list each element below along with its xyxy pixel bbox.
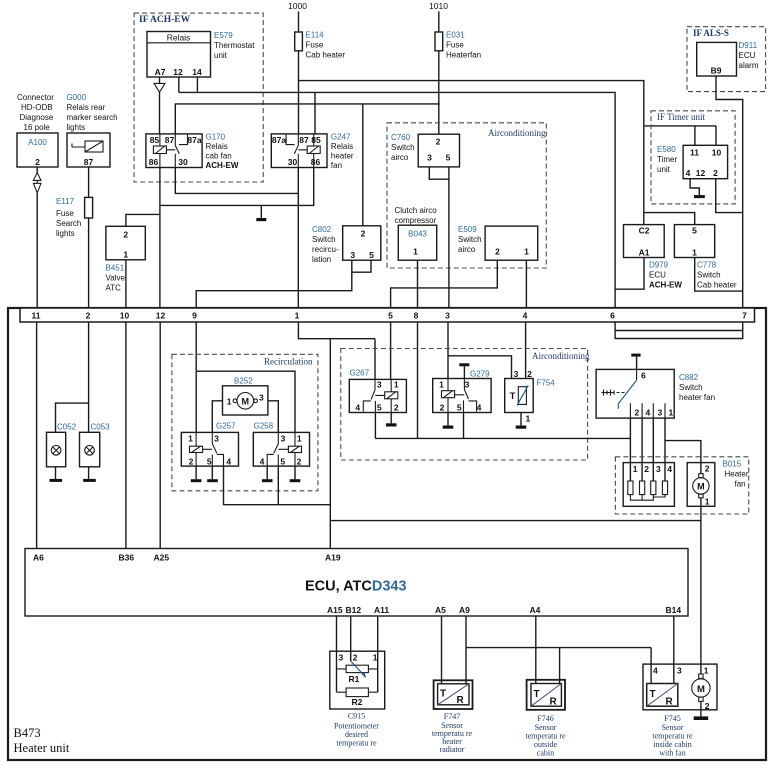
svg-text:G000: G000 (67, 93, 87, 102)
svg-text:Airconditioning: Airconditioning (488, 128, 546, 138)
outer box B473 Heater unit (8, 308, 766, 760)
wire bus 4 below bar to F754 pin 2 (525, 322, 527, 379)
svg-text:A6: A6 (33, 553, 44, 563)
svg-text:30: 30 (178, 157, 188, 167)
wire B9 to bus 7 (716, 76, 743, 308)
svg-text:9: 9 (192, 311, 197, 321)
wire C760 to bus 3 (448, 179, 450, 308)
E580 pin 4 to ground (690, 179, 699, 195)
svg-text:heater fan: heater fan (679, 393, 715, 402)
svg-text:2: 2 (394, 403, 399, 413)
svg-text:2: 2 (353, 653, 358, 663)
svg-text:A19: A19 (325, 553, 341, 563)
line A to C778 pin 5 (644, 213, 695, 225)
svg-text:1: 1 (227, 397, 232, 407)
C882 pins 2 4 3 1 (630, 403, 665, 418)
svg-text:airco: airco (458, 245, 476, 254)
svg-text:B36: B36 (119, 553, 135, 563)
svg-text:87: 87 (84, 157, 94, 167)
svg-text:lation: lation (312, 255, 331, 264)
svg-text:ATC: ATC (106, 284, 122, 293)
G267 pin 5 down (374, 413, 376, 439)
svg-text:Relais: Relais (206, 142, 228, 151)
svg-text:D911: D911 (739, 41, 758, 50)
svg-text:16 pole: 16 pole (24, 123, 51, 132)
svg-text:2: 2 (495, 247, 500, 257)
wire A5 to F747 (441, 616, 443, 684)
C882 pin wires down to B015 (630, 418, 665, 481)
G257 coil (195, 432, 197, 446)
svg-text:5: 5 (207, 457, 212, 467)
G257 contact (203, 432, 224, 466)
E509 pin 1 to bus 4 (525, 260, 527, 308)
svg-text:B12: B12 (346, 605, 362, 615)
triangle arrow (154, 83, 165, 92)
wire A11 to C915 pin 1 (377, 616, 379, 692)
G258 coil (294, 432, 296, 446)
IF ALS-S dashed box (687, 27, 766, 92)
switch heater fan C882 power T-bar (631, 354, 640, 357)
svg-text:Clutch airco: Clutch airco (395, 206, 438, 215)
bus bar connector strip (20, 308, 755, 322)
svg-text:F754: F754 (537, 379, 556, 388)
svg-text:Heater unit: Heater unit (14, 741, 70, 755)
svg-text:14: 14 (192, 67, 202, 77)
B451 pin 1 to bus 10 (125, 260, 127, 308)
resistor 2 (640, 481, 645, 495)
wire A7 with off-page triangle (159, 77, 161, 83)
Recirculation dashed box (172, 354, 318, 491)
Airconditioning dashed box upper (387, 123, 546, 268)
svg-text:A9: A9 (459, 605, 470, 615)
svg-text:4: 4 (260, 457, 265, 467)
wire A4 to F746 (535, 616, 537, 684)
svg-text:3: 3 (656, 464, 661, 474)
wire A15 to C915 pin 3 (336, 616, 338, 692)
svg-text:F745: F745 (664, 714, 680, 723)
R1 wiper arrow (351, 661, 366, 677)
E580 pin stubs 11 10 (695, 126, 716, 145)
svg-text:Timer: Timer (657, 155, 677, 164)
svg-text:1: 1 (704, 666, 709, 676)
svg-text:4: 4 (646, 408, 651, 418)
B015 heater fan dashed box (615, 457, 748, 514)
R2 resistor (346, 688, 368, 697)
svg-text:ACH-EW: ACH-EW (649, 281, 682, 290)
svg-text:Airconditioning: Airconditioning (532, 351, 590, 361)
svg-text:lights: lights (56, 229, 75, 238)
svg-text:IF ACH-EW: IF ACH-EW (139, 15, 191, 25)
wire B14 to F745 pin 3 (673, 616, 675, 684)
G170 coil (159, 134, 161, 146)
sensor F746 (527, 680, 565, 710)
svg-text:1010: 1010 (429, 1, 448, 11)
svg-text:4: 4 (477, 403, 482, 413)
svg-text:R1: R1 (349, 674, 360, 684)
svg-text:3: 3 (259, 393, 264, 403)
svg-text:E579: E579 (214, 31, 233, 40)
switch heater fan C882 (596, 369, 674, 418)
svg-text:3: 3 (339, 653, 344, 663)
svg-text:87: 87 (165, 135, 175, 145)
svg-text:4: 4 (653, 666, 658, 676)
svg-text:4: 4 (523, 311, 528, 321)
G247 contact (286, 134, 307, 168)
wire bus 11 to ECU A6 (36, 322, 38, 549)
svg-text:F747: F747 (444, 712, 460, 721)
svg-text:R: R (666, 697, 674, 708)
svg-text:lights: lights (67, 123, 86, 132)
E580 pin 2 to bus 7 wire (716, 179, 743, 213)
svg-text:Cab heater: Cab heater (697, 281, 737, 290)
sensor F747 (434, 680, 473, 709)
svg-text:F746: F746 (537, 714, 553, 723)
svg-text:A7: A7 (155, 67, 166, 77)
svg-text:1: 1 (439, 380, 444, 390)
svg-text:E117: E117 (56, 197, 75, 206)
svg-text:A4: A4 (530, 605, 541, 615)
svg-text:86: 86 (311, 157, 321, 167)
R1 resistor (346, 665, 368, 672)
relay G247 (271, 134, 327, 168)
line A branch to E580 (644, 125, 716, 127)
svg-text:Connector: Connector (17, 93, 54, 102)
wire from A100 pin 2 (36, 167, 38, 173)
F745 motor terminals (699, 674, 703, 678)
C882 rotary symbol (618, 380, 636, 409)
resistor bottom links (630, 495, 665, 501)
wire 1010 to C760 pin 2 (438, 51, 440, 134)
svg-text:E031: E031 (446, 31, 465, 40)
svg-text:M: M (697, 684, 705, 695)
svg-text:C760: C760 (391, 133, 411, 142)
svg-text:85: 85 (311, 135, 321, 145)
G267 pin 2 ground (390, 413, 392, 424)
svg-text:2: 2 (86, 311, 91, 321)
wire E579 pins 12 14 to line B (179, 77, 198, 92)
svg-text:3: 3 (677, 666, 682, 676)
svg-text:ECU, ATCD343: ECU, ATCD343 (305, 579, 407, 595)
B015 motor pin 1 wire down to F745 (700, 498, 702, 674)
wire bus 5 below bar to G267 pin 1 (390, 322, 392, 379)
svg-text:airco: airco (391, 153, 409, 162)
line 30 connecting G170 and G247 (175, 168, 298, 309)
svg-text:unit: unit (657, 165, 671, 174)
line 86 with ground (160, 168, 314, 206)
svg-text:4: 4 (226, 457, 231, 467)
wire E117 to bus 2 (88, 218, 90, 308)
svg-text:temperatu re: temperatu re (336, 739, 377, 748)
G258 contact (267, 432, 288, 466)
svg-text:G279: G279 (470, 370, 490, 379)
motor terminal squares (699, 474, 703, 478)
svg-text:C882: C882 (679, 373, 699, 382)
svg-text:cabin: cabin (537, 749, 554, 758)
IF ACH-EW dashed box (134, 13, 263, 182)
svg-text:Relais: Relais (331, 142, 353, 151)
svg-text:B043: B043 (408, 230, 427, 239)
wire to bus pin 11 (36, 193, 38, 308)
wire B12 to C915 pin 2 (350, 616, 352, 661)
svg-text:B9: B9 (711, 66, 722, 76)
svg-text:30: 30 (288, 157, 298, 167)
svg-text:4: 4 (355, 403, 360, 413)
G258 grounds pins 4 and 2 (267, 466, 295, 479)
A19 branch line to motor wire (330, 520, 701, 522)
under-bar link rectangle pins 6-7 (615, 322, 743, 339)
svg-text:G267: G267 (350, 369, 370, 378)
svg-text:87: 87 (299, 135, 309, 145)
switch airco C760 (418, 134, 459, 167)
svg-text:85: 85 (150, 135, 160, 145)
svg-text:Diagnose: Diagnose (20, 113, 54, 122)
svg-text:2: 2 (361, 229, 366, 239)
svg-text:87a: 87a (187, 135, 201, 145)
svg-text:6: 6 (610, 311, 615, 321)
svg-text:B015: B015 (723, 460, 742, 469)
relay G000 (67, 133, 110, 167)
svg-text:C778: C778 (697, 261, 717, 270)
svg-text:A1: A1 (639, 248, 650, 258)
svg-text:M: M (242, 396, 250, 406)
svg-text:T: T (650, 689, 656, 700)
svg-text:3: 3 (514, 369, 519, 379)
ground on line 86 (260, 205, 262, 218)
svg-text:C2: C2 (639, 226, 650, 236)
B043 pin 1 to bus 8 (417, 260, 419, 308)
svg-text:Switch: Switch (679, 383, 703, 392)
svg-text:5: 5 (457, 403, 462, 413)
B015 fan motor box (687, 463, 715, 507)
svg-text:Fuse: Fuse (446, 41, 464, 50)
G279 coil (447, 379, 449, 391)
svg-text:IF ALS-S: IF ALS-S (693, 28, 729, 38)
svg-text:C052: C052 (57, 423, 77, 432)
svg-text:Switch: Switch (458, 235, 482, 244)
wire 1010 (438, 11, 440, 32)
svg-text:T: T (440, 689, 446, 700)
svg-text:1: 1 (633, 464, 638, 474)
svg-text:3: 3 (465, 380, 470, 390)
wire bus 10 to ECU B36 (125, 322, 127, 549)
svg-text:cab fan: cab fan (206, 152, 232, 161)
svg-text:2: 2 (527, 369, 532, 379)
fuse E031 (435, 32, 443, 51)
svg-text:1: 1 (295, 311, 300, 321)
resistor 3 (651, 481, 656, 495)
svg-text:5: 5 (692, 226, 697, 236)
svg-text:10: 10 (712, 148, 722, 158)
C882 pin 6 (636, 369, 638, 380)
svg-text:1: 1 (526, 414, 531, 424)
G170 contact (166, 134, 187, 168)
line C from G170 87 to 1010 wire (175, 104, 440, 134)
svg-text:recircu-: recircu- (312, 245, 339, 254)
svg-text:with fan: with fan (659, 749, 685, 758)
Airconditioning dashed box lower (341, 349, 588, 461)
svg-text:3: 3 (281, 434, 286, 444)
ECU ACH-EW D979 (624, 225, 665, 258)
svg-text:A11: A11 (374, 605, 389, 615)
ECU ATC box (25, 549, 688, 617)
G170 86 / bus 12 vertical (159, 168, 161, 309)
svg-text:alarm: alarm (739, 61, 759, 70)
G267 coil (390, 379, 392, 391)
svg-text:5: 5 (377, 403, 382, 413)
thermostat unit E579 (147, 32, 211, 78)
drop to G267 pin 3 (374, 339, 376, 380)
svg-text:Cab heater: Cab heater (306, 51, 346, 60)
drop to ECU A19 (329, 339, 331, 549)
svg-text:A100: A100 (28, 138, 47, 147)
svg-text:G170: G170 (206, 133, 226, 142)
potentiometer C915 box (330, 651, 385, 709)
svg-text:2: 2 (713, 168, 718, 178)
svg-text:5: 5 (369, 250, 374, 260)
svg-text:Valve: Valve (106, 274, 126, 283)
svg-text:D979: D979 (649, 261, 669, 270)
svg-text:3: 3 (350, 250, 355, 260)
svg-text:7: 7 (742, 311, 747, 321)
E509 pin 2 elbow to bus 5 (391, 260, 498, 308)
svg-text:ECU: ECU (739, 51, 756, 60)
svg-text:B451: B451 (106, 264, 125, 273)
wire 1000 (298, 11, 300, 32)
line B to bus pin 6 (179, 92, 615, 308)
svg-text:A5: A5 (435, 605, 446, 615)
svg-text:B14: B14 (666, 605, 682, 615)
G247 pin 85 wire up to line B (314, 92, 316, 133)
svg-text:87a: 87a (272, 135, 286, 145)
svg-text:3: 3 (658, 408, 663, 418)
thermal switch F754 (505, 379, 534, 413)
svg-text:M: M (697, 482, 705, 492)
svg-text:Relais rear: Relais rear (67, 103, 106, 112)
G257 grounds pins 2 and 5 (196, 466, 212, 479)
svg-text:1: 1 (669, 408, 674, 418)
svg-text:1: 1 (123, 250, 128, 260)
switch cab heater C778 (674, 225, 714, 258)
svg-text:C915: C915 (348, 712, 365, 721)
svg-text:12: 12 (156, 311, 166, 321)
svg-text:Relais: Relais (167, 33, 191, 43)
F745 pin 4 wire (650, 648, 652, 684)
wire bus 2 down to lamps (56, 322, 89, 432)
wire 1000 to G247 pin 87 (298, 51, 300, 134)
clutch B043 (398, 225, 436, 260)
F746 right pin to return line (559, 648, 561, 684)
svg-text:2: 2 (436, 136, 441, 146)
svg-text:10: 10 (120, 311, 130, 321)
timer unit E580 (683, 145, 728, 178)
svg-text:4: 4 (686, 168, 691, 178)
wire G000 87 down (88, 167, 90, 197)
svg-text:Switch: Switch (697, 271, 721, 280)
svg-text:compressor: compressor (395, 216, 437, 225)
G279 contact (455, 379, 477, 413)
svg-text:heater: heater (331, 152, 354, 161)
svg-text:3: 3 (445, 311, 450, 321)
C778 pin 1 wire to bus 7 vertical (695, 258, 743, 292)
C882 pin 1 branch to fan motor (665, 441, 701, 474)
wire bus 9 below bar to G257 pin 1 (195, 322, 197, 432)
svg-text:R: R (550, 697, 558, 708)
svg-text:1: 1 (188, 434, 193, 444)
svg-text:R2: R2 (352, 697, 363, 707)
svg-text:2: 2 (297, 457, 302, 467)
svg-text:Thermostat: Thermostat (214, 41, 255, 50)
sensor F745 with fan (643, 664, 717, 710)
ground of C052 (55, 467, 57, 479)
svg-text:IF Timer unit: IF Timer unit (657, 112, 706, 122)
G279 pin 2 ground (447, 413, 449, 426)
svg-text:12: 12 (173, 67, 183, 77)
G267 contact (363, 379, 385, 412)
D979 A1 wire to bus 6 vertical (615, 258, 644, 290)
svg-text:R: R (457, 695, 465, 706)
G279 pin 5 down to line 438 (463, 413, 465, 439)
svg-text:A25: A25 (154, 553, 170, 563)
svg-text:2: 2 (705, 701, 710, 711)
resistor 4 (662, 481, 667, 495)
svg-text:5: 5 (446, 153, 451, 163)
svg-text:radiator: radiator (440, 745, 465, 754)
svg-text:G247: G247 (331, 133, 351, 142)
line C drop to C802 pin 2 (362, 104, 364, 226)
wire bus 8 below bar (417, 322, 419, 438)
svg-text:Search: Search (56, 219, 81, 228)
svg-text:2: 2 (35, 157, 40, 167)
svg-text:E580: E580 (657, 145, 676, 154)
svg-text:5: 5 (280, 457, 285, 467)
svg-text:Heater: Heater (725, 470, 749, 479)
svg-text:3: 3 (427, 153, 432, 163)
sensor return line A9 to F746 F745 (466, 647, 651, 649)
svg-text:G258: G258 (254, 422, 274, 431)
svg-text:Switch: Switch (312, 235, 336, 244)
G000 contact icon (72, 144, 85, 148)
wire bus 12 to ECU A25 (159, 322, 161, 549)
fuse E114 (295, 32, 303, 51)
svg-text:T: T (510, 391, 516, 402)
svg-text:1000: 1000 (288, 1, 307, 11)
svg-text:1: 1 (297, 434, 302, 444)
line 438 from G267 5 to C882 2 wire (375, 437, 630, 439)
double arrow symbol up (33, 173, 41, 181)
bus pin 1 line below bar (298, 322, 375, 339)
switch recirculation C802 (343, 226, 381, 260)
valve B451 (106, 226, 145, 259)
svg-text:5: 5 (388, 311, 393, 321)
svg-text:2: 2 (705, 463, 710, 473)
svg-text:G257: G257 (216, 422, 236, 431)
svg-text:A15: A15 (327, 605, 343, 615)
fuse E117 (85, 197, 93, 218)
svg-text:ECU: ECU (649, 271, 666, 280)
B015 resistor pack box (623, 463, 674, 507)
svg-text:2: 2 (123, 230, 128, 240)
wire bus 3 below bar to G279 pin 1 (447, 322, 449, 379)
B252 pin 3 elbow to G258 pin 3 (268, 401, 278, 433)
svg-text:Switch: Switch (391, 143, 415, 152)
svg-text:ACH-EW: ACH-EW (206, 161, 239, 170)
svg-text:2: 2 (440, 403, 445, 413)
svg-text:1: 1 (413, 247, 418, 257)
svg-text:unit: unit (214, 51, 228, 60)
relay G170 (146, 134, 202, 168)
svg-text:E114: E114 (306, 31, 325, 40)
ECU alarm D911 (697, 42, 737, 76)
